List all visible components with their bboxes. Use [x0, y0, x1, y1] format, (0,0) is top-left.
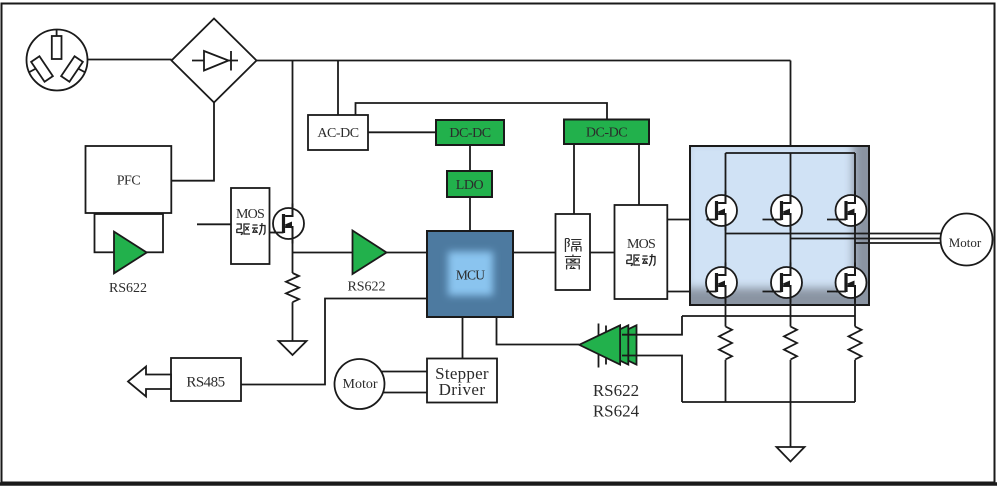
ground G2	[777, 447, 805, 462]
isolator block 隔离	[556, 214, 591, 290]
stepper driver block	[427, 359, 497, 403]
border frame bottom thick line	[0, 482, 997, 485]
amplifier RS624 (back)	[596, 325, 637, 364]
wire sense inputs	[622, 316, 682, 402]
svg-text:RS622: RS622	[109, 281, 147, 296]
AC plug P1	[27, 30, 88, 91]
svg-text:PFC: PFC	[117, 174, 141, 189]
wire AC-DC to DC-DC1	[368, 131, 436, 133]
svg-text:RS624: RS624	[593, 402, 640, 421]
sense input tick bars	[599, 324, 607, 368]
PFC feedback box	[95, 214, 164, 252]
wire top rail from bridge	[257, 60, 791, 62]
wire inner top rail	[726, 152, 856, 154]
motor M1	[941, 214, 993, 266]
svg-text:DC-DC: DC-DC	[586, 126, 627, 141]
label 驱动 (driver)	[236, 223, 265, 235]
inverter power module block	[686, 142, 869, 305]
wire MCU to sense amps	[497, 317, 580, 345]
gate stub top middle	[763, 219, 782, 221]
MOS driver 1 block	[231, 188, 270, 264]
wire isolator to MOS driver 2	[590, 252, 615, 254]
wire gate drives to bridge (top row)	[667, 219, 716, 221]
wire drop to AC-DC	[337, 61, 339, 116]
wire MCU to stepper driver	[462, 317, 464, 359]
LDO block	[447, 171, 492, 197]
transistor Q1 (PFC switch)	[270, 204, 305, 244]
wire R1 to ground	[292, 302, 294, 341]
wire LDO to MCU	[469, 197, 471, 231]
svg-text:MCU: MCU	[456, 268, 485, 283]
wire DC-DC2 to MOS driver 2	[638, 144, 640, 205]
RS485 block	[171, 358, 241, 401]
wire bridge bottom to PFC	[171, 103, 214, 181]
svg-text:RS622: RS622	[593, 381, 639, 400]
svg-text:LDO: LDO	[456, 178, 484, 193]
stepper motor M2	[335, 359, 385, 409]
wire motor to driver (2 lines)	[381, 371, 427, 373]
transistor Q7	[836, 263, 867, 303]
transistor Q6	[771, 263, 802, 303]
wire R3 bottom to ground	[790, 360, 792, 447]
PFC block	[86, 146, 172, 213]
ground G1	[279, 341, 307, 355]
svg-text:DC-DC: DC-DC	[449, 126, 490, 141]
wire plug to bridge	[88, 59, 172, 61]
svg-text:Motor: Motor	[949, 235, 982, 250]
MOS driver 2 block	[615, 205, 668, 299]
svg-text:MOS: MOS	[627, 237, 655, 252]
bridge rectifier D1	[172, 19, 257, 103]
amplifier RS623 (middle)	[587, 325, 628, 364]
wire phase column A	[725, 153, 727, 327]
wire gate input to MOS driver 1	[197, 223, 231, 225]
wire phase column C	[854, 153, 856, 327]
wire MCU to RS485	[241, 299, 427, 385]
svg-text:MOS: MOS	[236, 207, 264, 222]
gate stub bottom middle	[763, 291, 782, 293]
wire amp to MCU	[387, 252, 428, 254]
wire DC-DC1 to LDO	[469, 145, 471, 171]
wire shunt top rail	[682, 315, 855, 317]
svg-text:RS485: RS485	[186, 375, 224, 391]
DC-DC converter 2	[564, 120, 649, 145]
transistor Q2	[706, 191, 737, 231]
wire second rail AC-DC to DC-DC2	[356, 103, 608, 120]
wire R2 bottom	[725, 360, 727, 402]
arrow out (RS485 bus)	[128, 367, 171, 397]
transistor Q3	[771, 191, 802, 231]
amplifier RS622 (front)	[579, 325, 620, 364]
wire phase A to motor	[726, 233, 942, 235]
svg-text:RS622: RS622	[347, 280, 385, 295]
resistor R3 (shunt B)	[784, 327, 797, 360]
gate stub top right	[827, 219, 846, 221]
resistor R4 (shunt C)	[849, 327, 862, 360]
wire MCU to isolator	[513, 252, 556, 254]
resistor R1 (PFC shunt)	[286, 273, 299, 302]
svg-text:AC-DC: AC-DC	[317, 126, 358, 141]
wire Q1 source node	[293, 243, 353, 273]
wire R4 bottom	[854, 360, 856, 402]
DC-DC converter 1	[436, 120, 504, 145]
amplifier RS622 (current sense to MCU)	[353, 231, 387, 275]
amplifier RS622 (PFC feedback)	[114, 232, 147, 274]
gate stub bottom right	[827, 291, 846, 293]
wire drop to Q1 drain	[292, 61, 294, 205]
transistor Q5	[706, 263, 737, 303]
AC-DC block	[308, 115, 368, 150]
wire gate drives to bridge (bottom row)	[667, 291, 716, 293]
wire phase column B	[790, 153, 792, 327]
wire shunt bottom rail	[682, 401, 855, 403]
svg-text:Motor: Motor	[343, 377, 378, 392]
MCU block	[427, 231, 513, 317]
resistor R2 (shunt A)	[719, 327, 732, 360]
svg-text:Driver: Driver	[439, 380, 486, 399]
transistor Q4	[836, 191, 867, 231]
wire DC-DC2 to isolator	[573, 144, 575, 214]
wire phase C to motor	[855, 242, 942, 244]
wire phase B to motor	[791, 238, 942, 240]
wire drop to inverter mid column	[790, 61, 792, 155]
